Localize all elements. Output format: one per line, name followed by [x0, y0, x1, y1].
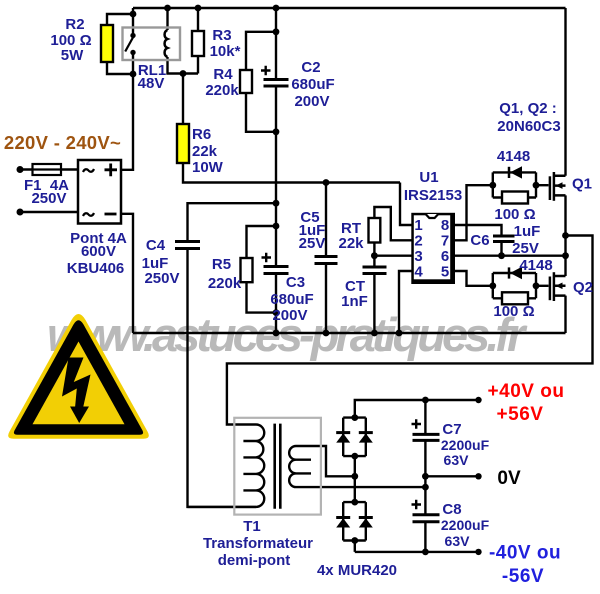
- input terminal 2: [17, 209, 24, 216]
- svg-text:R2: R2: [65, 16, 84, 33]
- node block2 bottom: [351, 537, 358, 544]
- resistor RT: [369, 218, 381, 243]
- svg-text:250V: 250V: [31, 190, 66, 207]
- wire relay coil top: [166, 8, 168, 30]
- wire Q2 gate: [536, 285, 549, 287]
- diode MUR420 block2 left: [336, 516, 350, 519]
- svg-text:200V: 200V: [272, 307, 307, 324]
- node top rail C2: [273, 5, 280, 12]
- bridge rectifier box: [78, 160, 121, 224]
- wire input 2: [20, 211, 78, 213]
- relay RL1 box: [123, 28, 181, 61]
- svg-text:IRS2153: IRS2153: [404, 187, 462, 204]
- transformer T1 secondary: [289, 446, 296, 487]
- svg-text:C6: C6: [470, 232, 489, 249]
- node rail COM: [396, 330, 403, 337]
- resistor R6: [177, 124, 189, 163]
- wire C4 top tap: [188, 203, 277, 241]
- svg-text:R5: R5: [212, 256, 231, 273]
- node midpoint: [562, 232, 569, 239]
- node R4 top: [273, 28, 280, 35]
- diode 4148 Q2: [508, 267, 511, 278]
- capacitor C7 plates: [413, 434, 440, 440]
- svg-text:20N60C3: 20N60C3: [497, 118, 560, 135]
- svg-text:250V: 250V: [144, 270, 179, 287]
- svg-text:C8: C8: [442, 501, 461, 518]
- node R5 bottom: [273, 309, 280, 316]
- svg-text:3: 3: [414, 248, 422, 265]
- wire secondary top: [296, 446, 355, 476]
- wire RT top to pin2: [374, 207, 411, 240]
- C3 plus sign: [262, 253, 272, 262]
- wire R2 bottom: [107, 62, 133, 74]
- svg-text:+40V ou: +40V ou: [488, 381, 565, 402]
- diode MUR420 block1 right: [359, 431, 373, 434]
- fuse F1: [33, 164, 62, 175]
- svg-text:680uF: 680uF: [270, 291, 313, 308]
- wire R6 bottom / VCC line: [183, 163, 400, 183]
- svg-text:Q2: Q2: [573, 279, 593, 296]
- svg-text:25V: 25V: [512, 240, 539, 257]
- node block1 bottom: [351, 453, 358, 460]
- relay coil RL1: [165, 30, 168, 57]
- wire C2 to C3: [275, 86, 277, 267]
- transistor Q1: [550, 172, 566, 201]
- node rail C3: [273, 330, 280, 337]
- MUR420 block1 frame: [343, 418, 366, 457]
- svg-text:1uF: 1uF: [514, 223, 541, 240]
- svg-text:2: 2: [414, 233, 422, 250]
- capacitor C4 plates: [175, 242, 200, 249]
- resistor R5: [241, 258, 253, 282]
- svg-text:220k: 220k: [208, 275, 242, 292]
- capacitor C5 plates: [315, 257, 338, 264]
- svg-text:5: 5: [441, 264, 449, 281]
- gate network Q1 frame: [493, 172, 536, 197]
- svg-text:8: 8: [441, 217, 449, 234]
- wire pin7 HO: [454, 185, 493, 240]
- transformer T1 gray box: [234, 418, 321, 515]
- wire R4 bottom: [246, 93, 276, 132]
- node C5 top: [323, 179, 330, 186]
- diode MUR420 block2 right: [359, 516, 373, 519]
- wire CT bottom: [373, 274, 375, 334]
- svg-text:6: 6: [441, 248, 449, 265]
- relay contact RL1: [125, 37, 133, 52]
- svg-text:R4: R4: [213, 66, 233, 83]
- svg-text:220k: 220k: [205, 82, 239, 99]
- diode MUR420 block1 left: [336, 431, 350, 434]
- capacitor C2 plates: [264, 80, 289, 87]
- node secondary top: [351, 473, 358, 480]
- node gate2 left: [489, 282, 496, 289]
- wire C6 bottom: [500, 242, 502, 256]
- svg-text:63V: 63V: [445, 533, 471, 549]
- node C7 bottom 0V: [422, 473, 429, 480]
- svg-text:0V: 0V: [497, 468, 521, 489]
- capacitor C3 plates: [264, 267, 289, 274]
- MUR420 block2 frame: [343, 502, 366, 540]
- bridge ~ bottom: [83, 213, 94, 216]
- svg-text:63V: 63V: [444, 452, 470, 468]
- svg-text:22k: 22k: [192, 143, 218, 160]
- resistor R4: [240, 70, 252, 93]
- wire C5 top: [325, 183, 327, 257]
- node R4 bottom: [273, 128, 280, 135]
- wire coil bottom: [168, 57, 199, 74]
- C2 plus sign: [261, 66, 271, 75]
- svg-text:25V: 25V: [299, 235, 326, 252]
- svg-text:KBU406: KBU406: [67, 260, 125, 277]
- svg-text:22k: 22k: [338, 235, 364, 252]
- node top rail R3: [195, 5, 202, 12]
- node R2 bottom: [130, 71, 137, 78]
- wire C4 bottom long: [188, 249, 257, 507]
- wire R4 top tap: [246, 32, 276, 70]
- diode 4148 Q1 (on gate network): [508, 167, 511, 178]
- wire block2 to -rail: [355, 541, 479, 552]
- wire pin6 VS: [454, 254, 566, 256]
- node C6 VS: [498, 252, 505, 259]
- wire pin8 VB to C6: [454, 225, 502, 236]
- terminal -V: [475, 549, 481, 555]
- resistor 100ohm Q2 gate: [502, 292, 528, 304]
- svg-text:5W: 5W: [61, 47, 84, 64]
- svg-text:2200uF: 2200uF: [441, 517, 490, 533]
- node center tap: [422, 484, 429, 491]
- node gate1 right: [533, 182, 540, 189]
- wire diode midpoint vertical: [354, 456, 356, 502]
- node block1 top: [351, 414, 358, 421]
- svg-text:600V: 600V: [81, 243, 116, 260]
- wire Q2 source: [564, 296, 566, 333]
- capacitor C8 plates: [413, 515, 440, 522]
- wire top rail: [133, 7, 566, 9]
- wire C5 bottom: [325, 264, 327, 334]
- resistor R3: [192, 31, 204, 56]
- svg-text:C3: C3: [286, 274, 305, 291]
- wire primary bottom: [188, 506, 257, 508]
- svg-text:Q1, Q2 :: Q1, Q2 :: [499, 100, 557, 117]
- wire Q1 drain-source vertical: [564, 8, 566, 276]
- wire C8: [424, 476, 426, 552]
- transformer core: [275, 424, 281, 509]
- svg-text:U1: U1: [419, 169, 438, 186]
- svg-text:C4: C4: [146, 237, 166, 254]
- wire RT bottom: [374, 243, 411, 256]
- svg-text:48V: 48V: [138, 75, 165, 92]
- wire R6 top: [182, 74, 184, 125]
- svg-text:+56V: +56V: [497, 404, 544, 425]
- wire R5 bottom: [247, 282, 277, 312]
- node gate1 left: [489, 182, 496, 189]
- terminal 0V: [475, 473, 481, 479]
- C7 plus sign: [412, 419, 422, 428]
- svg-text:10W: 10W: [192, 159, 224, 176]
- node rail CT: [371, 330, 378, 337]
- bridge ~ top: [83, 169, 94, 172]
- wire fuse input: [20, 168, 78, 170]
- wire R5 top: [247, 226, 277, 258]
- wire half-bridge midpoint to primary: [227, 236, 593, 425]
- resistor R2: [101, 25, 113, 62]
- wire pin5 LO: [454, 271, 493, 286]
- wire x133 upper: [132, 8, 134, 33]
- wire block1 to +rail: [355, 400, 479, 418]
- wire pin1 VCC: [400, 183, 412, 226]
- node C4 tap: [273, 200, 280, 207]
- node CT pin3: [371, 252, 378, 259]
- transformer T1 primary: [256, 425, 264, 507]
- svg-text:4148: 4148: [497, 148, 530, 165]
- svg-text:T1: T1: [243, 518, 261, 535]
- wire C3 bottom: [275, 274, 277, 334]
- capacitor CT plates: [363, 267, 387, 274]
- IC U1 IRS2153: [411, 213, 455, 284]
- svg-text:-40V ou: -40V ou: [489, 543, 561, 564]
- warning triangle: [8, 314, 149, 439]
- wire R3 top: [197, 8, 199, 31]
- svg-text:7: 7: [441, 233, 449, 250]
- node VS Q: [562, 252, 569, 259]
- svg-text:R6: R6: [192, 126, 211, 143]
- node gate2 right: [533, 282, 540, 289]
- svg-text:demi-pont: demi-pont: [218, 552, 291, 569]
- node R5 top: [273, 223, 280, 230]
- svg-text:C7: C7: [442, 421, 461, 438]
- resistor 100ohm Q1 gate: [502, 192, 528, 204]
- relay contact circles: [130, 33, 135, 38]
- transistor Q2: [550, 272, 566, 301]
- svg-text:680uF: 680uF: [291, 76, 334, 93]
- node top rail coil: [164, 5, 171, 12]
- wire secondary bottom / center tap: [296, 486, 425, 488]
- svg-text:Transformateur: Transformateur: [203, 535, 313, 552]
- gate network Q2 frame: [493, 273, 536, 298]
- wire bottom rail: [133, 332, 566, 334]
- svg-text:100 Ω: 100 Ω: [493, 303, 534, 320]
- node rail C5: [323, 330, 330, 337]
- svg-text:1: 1: [414, 217, 422, 234]
- svg-text:100 Ω: 100 Ω: [494, 206, 535, 223]
- input terminal 1: [17, 166, 24, 173]
- node R6 top: [180, 70, 187, 77]
- node C8 bottom: [422, 549, 429, 556]
- svg-text:R3: R3: [212, 27, 231, 44]
- svg-text:200V: 200V: [294, 93, 329, 110]
- svg-text:-56V: -56V: [502, 566, 544, 587]
- bridge +: [105, 164, 118, 177]
- svg-text:4: 4: [414, 264, 423, 281]
- node C7 top: [422, 397, 429, 404]
- wire Q1 gate: [536, 184, 549, 186]
- svg-text:10k*: 10k*: [210, 43, 241, 60]
- wire pin4 COM: [399, 271, 412, 333]
- node block2 top: [351, 499, 358, 506]
- wire CT top: [373, 256, 375, 267]
- wire C7: [424, 400, 426, 476]
- svg-text:4148: 4148: [519, 257, 552, 274]
- wire bus vertical x276 top: [275, 8, 277, 80]
- wire R3 bottom: [197, 56, 199, 74]
- svg-text:4x MUR420: 4x MUR420: [317, 562, 397, 579]
- wire bridge minus down: [121, 214, 133, 333]
- svg-text:2200uF: 2200uF: [441, 437, 490, 453]
- bridge -: [105, 213, 117, 216]
- wire R2 top: [107, 14, 133, 25]
- svg-text:1nF: 1nF: [341, 293, 368, 310]
- terminal +V: [475, 397, 481, 403]
- C8 plus sign: [412, 500, 422, 509]
- wire 0V rail: [425, 475, 478, 477]
- svg-text:Q1: Q1: [572, 176, 592, 193]
- svg-text:C2: C2: [301, 59, 320, 76]
- node R2 top: [130, 11, 137, 18]
- wire x133 lower to bridge +: [121, 55, 133, 170]
- capacitor C6 plates: [493, 236, 515, 242]
- svg-text:220V - 240V~: 220V - 240V~: [4, 132, 121, 153]
